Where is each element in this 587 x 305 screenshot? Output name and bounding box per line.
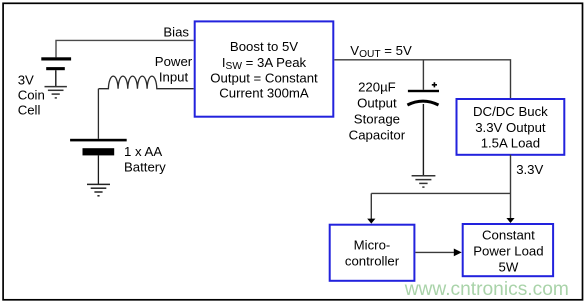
svg-text:5W: 5W bbox=[499, 259, 519, 274]
svg-text:Cell: Cell bbox=[18, 102, 41, 117]
svg-text:Power: Power bbox=[155, 54, 193, 69]
svg-text:1 x AA: 1 x AA bbox=[124, 144, 162, 159]
wire microcontroller to power load bbox=[415, 251, 454, 253]
svg-text:3.3V Output: 3.3V Output bbox=[475, 120, 546, 135]
block U4 constant power load bbox=[463, 224, 553, 276]
svg-text:VOUT = 5V: VOUT = 5V bbox=[350, 43, 412, 60]
svg-text:Boost to 5V: Boost to 5V bbox=[230, 39, 298, 54]
capacitor C1 220uF polarized bbox=[407, 82, 439, 105]
ground (capacitor) bbox=[412, 176, 436, 187]
label Constant Power Load 5W block text bbox=[473, 227, 543, 274]
label DC/DC Buck block text bbox=[473, 104, 548, 151]
svg-text:Capacitor: Capacitor bbox=[349, 127, 406, 142]
svg-text:Output: Output bbox=[357, 95, 397, 110]
svg-text:www.cntronics.com: www.cntronics.com bbox=[404, 279, 569, 300]
wire bias (coin cell to boost box) bbox=[56, 40, 194, 58]
arrow into power load left side bbox=[454, 249, 462, 257]
svg-text:3.3V: 3.3V bbox=[516, 162, 543, 177]
wire capacitor branch from bus bbox=[422, 60, 424, 90]
ground (AA battery) bbox=[87, 184, 110, 195]
arrow into constant power load bbox=[506, 218, 514, 223]
svg-text:Micro-: Micro- bbox=[354, 237, 391, 252]
arrow into microcontroller bbox=[367, 219, 375, 224]
inductor L1 bbox=[99, 76, 194, 89]
wire VOUT bus (boost output to buck input) bbox=[334, 60, 511, 99]
label Micro-controller block text bbox=[345, 237, 400, 268]
svg-text:controller: controller bbox=[345, 253, 400, 268]
block U3 microcontroller bbox=[330, 225, 415, 281]
svg-text:Input: Input bbox=[159, 70, 189, 85]
block U2 DC/DC buck bbox=[457, 99, 565, 155]
svg-text:Output = Constant: Output = Constant bbox=[210, 70, 318, 85]
ground (coin cell) bbox=[45, 87, 67, 98]
svg-text:Storage: Storage bbox=[354, 111, 400, 126]
svg-text:Constant: Constant bbox=[482, 227, 535, 242]
svg-text:3V: 3V bbox=[18, 72, 34, 87]
wire 3.3V rail from buck output bbox=[371, 155, 510, 219]
battery BT2 1 x AA bbox=[70, 139, 127, 156]
svg-text:1.5A Load: 1.5A Load bbox=[481, 136, 540, 151]
wire capacitor to ground bbox=[422, 104, 424, 176]
battery BT1 3V coin cell bbox=[41, 57, 71, 70]
svg-text:Power Load: Power Load bbox=[473, 243, 543, 258]
svg-text:DC/DC Buck: DC/DC Buck bbox=[473, 104, 548, 119]
wire coin cell to ground bbox=[55, 70, 57, 86]
svg-text:Battery: Battery bbox=[124, 159, 166, 174]
svg-text:220µF: 220µF bbox=[358, 79, 396, 94]
svg-text:Current 300mA: Current 300mA bbox=[219, 86, 309, 101]
wire inductor down to AA battery bbox=[97, 89, 99, 139]
label 220uF Output Storage Capacitor bbox=[349, 79, 406, 142]
svg-text:Coin: Coin bbox=[18, 87, 45, 102]
svg-text:Bias: Bias bbox=[163, 24, 189, 39]
wire AA battery to ground bbox=[97, 155, 99, 184]
block U1 Boost converter bbox=[195, 21, 334, 116]
label Boost to 5V block text bbox=[210, 39, 318, 101]
